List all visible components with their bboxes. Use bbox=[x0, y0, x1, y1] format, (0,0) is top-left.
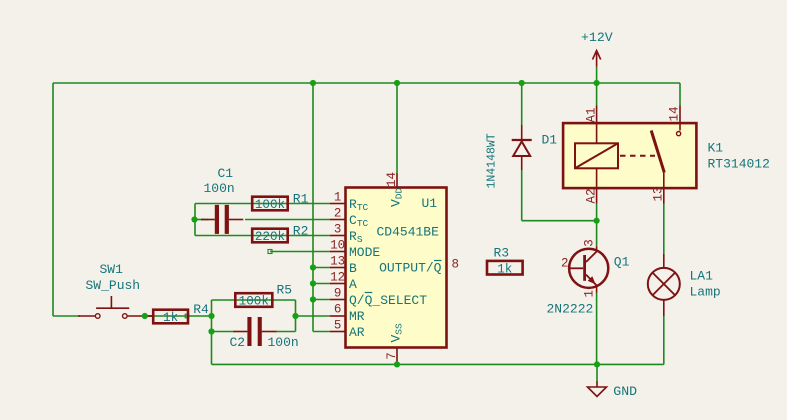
wire Q1 emitter down bbox=[596, 293, 598, 365]
wire bus to pin 5 AR bbox=[313, 331, 330, 333]
svg-text:220k: 220k bbox=[255, 230, 285, 244]
junction C2 left bbox=[208, 328, 214, 334]
wire node vertical R5-C2 bbox=[211, 300, 213, 364]
svg-text:R3: R3 bbox=[494, 246, 510, 261]
node MODE wire end square bbox=[268, 250, 272, 254]
wire through R2 to pin 3 bbox=[195, 235, 330, 237]
resistor R5 body bbox=[235, 293, 272, 308]
pin 6 stub bbox=[330, 315, 346, 317]
svg-text:K1: K1 bbox=[708, 141, 724, 156]
svg-text:A2: A2 bbox=[584, 188, 598, 203]
pin 10 stub bbox=[330, 251, 346, 253]
svg-text:8: 8 bbox=[452, 258, 460, 272]
relay K1 coil bbox=[575, 123, 618, 188]
svg-text:Lamp: Lamp bbox=[690, 285, 721, 300]
junction bus/top bbox=[310, 80, 316, 86]
pin 7 VSS stub bbox=[396, 348, 398, 365]
wire SW1 right pin bbox=[128, 315, 154, 317]
lamp LA1 top pin bbox=[663, 254, 665, 268]
wire R4 to node bbox=[145, 315, 212, 317]
diode D1 bottom pin bbox=[521, 156, 523, 170]
pin 3 stub bbox=[330, 235, 346, 237]
svg-text:C1: C1 bbox=[218, 166, 234, 181]
switch SW1 bbox=[95, 296, 129, 318]
relay pin A2 stub bbox=[596, 188, 598, 203]
wire IC left bus bbox=[312, 83, 314, 332]
svg-text:1: 1 bbox=[334, 191, 342, 205]
wire bus to pin 9 bbox=[313, 299, 330, 301]
wire +12V drop bbox=[596, 67, 598, 83]
wire A2 to Q1 bbox=[596, 204, 598, 247]
wire C1 to pin 2 bbox=[245, 219, 330, 221]
junction VSS/bottom bbox=[394, 361, 400, 367]
wire to relay pin 14 bbox=[679, 83, 681, 106]
svg-text:7: 7 bbox=[385, 352, 399, 360]
svg-text:100k: 100k bbox=[255, 198, 285, 212]
resistor R3 body bbox=[487, 261, 523, 276]
svg-text:D1: D1 bbox=[542, 133, 558, 148]
svg-text:6: 6 bbox=[334, 303, 342, 317]
pin name Q_SELECT overbar bbox=[365, 292, 373, 294]
resistor R4 left pin stub bbox=[145, 315, 153, 317]
power +12V symbol bbox=[593, 51, 601, 67]
junction bus pin9 bbox=[310, 296, 316, 302]
node R4 right end square bbox=[185, 314, 189, 318]
wire right vertical R5-C2 bbox=[295, 300, 297, 332]
wire C2 right bbox=[276, 331, 296, 333]
svg-text:AR: AR bbox=[349, 325, 365, 340]
lamp LA1 bbox=[648, 268, 680, 300]
svg-text:Q/Q_SELECT: Q/Q_SELECT bbox=[349, 293, 427, 308]
svg-text:1: 1 bbox=[583, 290, 597, 298]
svg-text:10: 10 bbox=[330, 239, 345, 253]
svg-text:GND: GND bbox=[613, 384, 637, 399]
wire SW1 left pin bbox=[78, 315, 95, 317]
wire to relay A1 bbox=[596, 83, 598, 106]
wire bus to pin 13 B bbox=[313, 267, 330, 269]
pin 9 stub bbox=[330, 299, 346, 301]
pin 12 stub bbox=[330, 283, 346, 285]
svg-text:OUTPUT/Q: OUTPUT/Q bbox=[379, 261, 442, 276]
svg-text:R5: R5 bbox=[277, 283, 293, 298]
svg-text:R1: R1 bbox=[293, 191, 309, 206]
wire through R1 to pin 1 bbox=[195, 203, 330, 205]
svg-text:1k: 1k bbox=[497, 262, 512, 276]
svg-text:13: 13 bbox=[330, 255, 345, 269]
relay pin A1 stub bbox=[596, 106, 598, 124]
svg-text:100n: 100n bbox=[204, 181, 235, 196]
wire C1 right pin bbox=[229, 219, 243, 221]
svg-text:3: 3 bbox=[334, 223, 342, 237]
svg-text:5: 5 bbox=[334, 319, 342, 333]
svg-text:CD4541BE: CD4541BE bbox=[377, 225, 440, 240]
capacitor C1 plates bbox=[215, 205, 229, 234]
wire GND drop bbox=[596, 364, 598, 381]
op-amp U1 body bbox=[346, 188, 447, 348]
wire VDD drop bbox=[396, 83, 398, 173]
svg-text:A: A bbox=[349, 277, 357, 292]
pin 14 VDD stub bbox=[396, 173, 398, 188]
resistor R4 body bbox=[153, 310, 188, 325]
junction C1 left rail bbox=[191, 216, 197, 222]
svg-text:3: 3 bbox=[583, 239, 597, 247]
relay K1 contact bbox=[620, 123, 681, 188]
junction bus pin12 bbox=[310, 280, 316, 286]
wire rail to C1 bbox=[195, 219, 209, 221]
svg-text:R4: R4 bbox=[193, 302, 209, 317]
svg-text:9: 9 bbox=[334, 287, 342, 301]
pin 5 stub bbox=[330, 331, 346, 333]
svg-text:LA1: LA1 bbox=[690, 269, 714, 284]
svg-text:12: 12 bbox=[330, 271, 345, 285]
svg-text:C2: C2 bbox=[230, 335, 246, 350]
junction D1/top bbox=[519, 80, 525, 86]
transistor Q1 bbox=[569, 249, 608, 288]
relay pin 14 stub bbox=[679, 106, 681, 124]
wire bus to pin 12 A bbox=[313, 283, 330, 285]
junction +12V/top bbox=[594, 80, 600, 86]
svg-text:R2: R2 bbox=[293, 224, 309, 239]
svg-text:SW_Push: SW_Push bbox=[86, 278, 141, 293]
pin 1 emitter stub Q1 bbox=[596, 285, 598, 292]
wire C2 left pin bbox=[234, 331, 248, 333]
svg-text:2: 2 bbox=[561, 257, 569, 271]
wire top rail bbox=[53, 82, 680, 84]
svg-text:13: 13 bbox=[651, 186, 665, 201]
svg-text:+12V: +12V bbox=[581, 30, 613, 45]
junction bus pin13 bbox=[310, 264, 316, 270]
junction R4/R5C2 left bbox=[208, 313, 214, 319]
wire bottom rail bbox=[212, 363, 664, 365]
ground symbol GND bbox=[588, 381, 607, 397]
wire to C2 left bbox=[212, 331, 235, 333]
junction VDD/top bbox=[394, 80, 400, 86]
junction SW1/R4 bbox=[142, 313, 148, 319]
wire D1 top bbox=[521, 83, 523, 125]
wire C2 right pin bbox=[262, 331, 277, 333]
svg-text:Q1: Q1 bbox=[614, 255, 630, 270]
svg-text:MODE: MODE bbox=[349, 245, 380, 260]
svg-text:SW1: SW1 bbox=[100, 262, 124, 277]
svg-text:1N4148WT: 1N4148WT bbox=[486, 133, 499, 188]
pin 1 stub bbox=[330, 203, 346, 205]
wire D1 bottom bbox=[521, 170, 523, 221]
wire R1 left rail bbox=[194, 204, 196, 236]
svg-text:2: 2 bbox=[334, 207, 342, 221]
wire lamp to bottom rail bbox=[663, 316, 665, 364]
relay K1 body bbox=[563, 123, 696, 188]
pin 3 collector stub Q1 bbox=[596, 246, 598, 252]
resistor R1 body bbox=[252, 197, 288, 212]
pin 2 stub bbox=[330, 219, 346, 221]
wire C1 left pin bbox=[201, 219, 215, 221]
resistor R2 body bbox=[252, 229, 288, 244]
wire node to pin 6 MR bbox=[296, 315, 331, 317]
svg-text:14: 14 bbox=[385, 172, 399, 187]
junction D1/Q1 collector bbox=[594, 218, 600, 224]
diode D1 bbox=[512, 140, 532, 156]
svg-text:14: 14 bbox=[668, 106, 682, 121]
svg-text:B: B bbox=[349, 261, 357, 276]
svg-text:100n: 100n bbox=[268, 335, 299, 350]
svg-text:1k: 1k bbox=[163, 311, 178, 325]
capacitor C2 plates bbox=[247, 317, 261, 346]
wire left vertical bbox=[52, 83, 54, 316]
wire pin13 to lamp bbox=[663, 204, 665, 254]
lamp LA1 bottom pin bbox=[663, 300, 665, 316]
svg-text:RT314012: RT314012 bbox=[708, 157, 770, 172]
wire to SW1 bbox=[53, 315, 80, 317]
diode D1 top pin bbox=[521, 125, 523, 140]
svg-text:2N2222: 2N2222 bbox=[547, 302, 594, 317]
wire D1 to collector node bbox=[522, 220, 597, 222]
svg-text:A1: A1 bbox=[584, 107, 598, 122]
junction R5C2 right/MR bbox=[292, 313, 298, 319]
relay pin 13 stub bbox=[663, 188, 665, 203]
svg-text:U1: U1 bbox=[422, 196, 438, 211]
svg-text:100k: 100k bbox=[239, 295, 269, 309]
junction GND/bottom bbox=[594, 361, 600, 367]
wire MODE pin 10 bbox=[270, 251, 330, 253]
wire through R5 bbox=[212, 299, 296, 301]
pin name OUTPUT/Q overbar bbox=[434, 260, 442, 262]
svg-text:MR: MR bbox=[349, 309, 365, 324]
pin 13 stub bbox=[330, 267, 346, 269]
